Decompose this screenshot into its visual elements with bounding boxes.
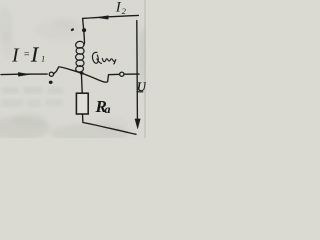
svg-text:I: I [11,44,20,66]
junction dot on upper vertical wire [82,28,86,32]
paper background [0,0,146,138]
ink speck below left terminal [49,81,53,84]
label U (underlined) [137,80,147,94]
svg-text:1: 1 [41,54,45,64]
wire from left terminal over hump to coil bottom junction [54,67,81,74]
wire right terminal to U line [124,73,139,75]
wire coil bottom to resistor top [80,73,83,93]
bleed-through text row 2 [1,99,63,107]
label Ra [95,97,111,116]
svg-text:I: I [30,43,39,67]
arrow head I (points right) on left rail [18,72,30,76]
U voltage arrow line [136,21,139,119]
wire left rail [1,73,47,76]
svg-text:а: а [105,102,111,116]
wire top rail [83,15,139,18]
wire bottom rail [83,123,136,135]
wire coil bottom to right terminal (with dip) [81,73,120,82]
svg-text:2: 2 [122,6,127,16]
junction blob at coil bottom [80,72,84,75]
bleed-through text row 1 [2,87,63,95]
right edge shadow [144,0,146,138]
arrow head I2 (points left) on top rail [97,16,109,20]
terminal circle right [120,72,124,76]
wire left vertical from top rail to coil [83,18,85,40]
paper mottling blotches [0,7,148,142]
ink speck left of junction dot [70,28,74,32]
label I = I1 [11,43,45,67]
coil (field winding) loops [75,41,84,73]
resistor Ra body [76,93,88,114]
arrow head U (points down) [135,119,140,129]
wire resistor bottom to bottom rail corner [82,114,84,122]
svg-text:=: = [23,50,30,61]
label Rvsh (cursive) next to coil [92,52,115,64]
label I2 [115,0,127,16]
terminal circle left [49,72,53,76]
